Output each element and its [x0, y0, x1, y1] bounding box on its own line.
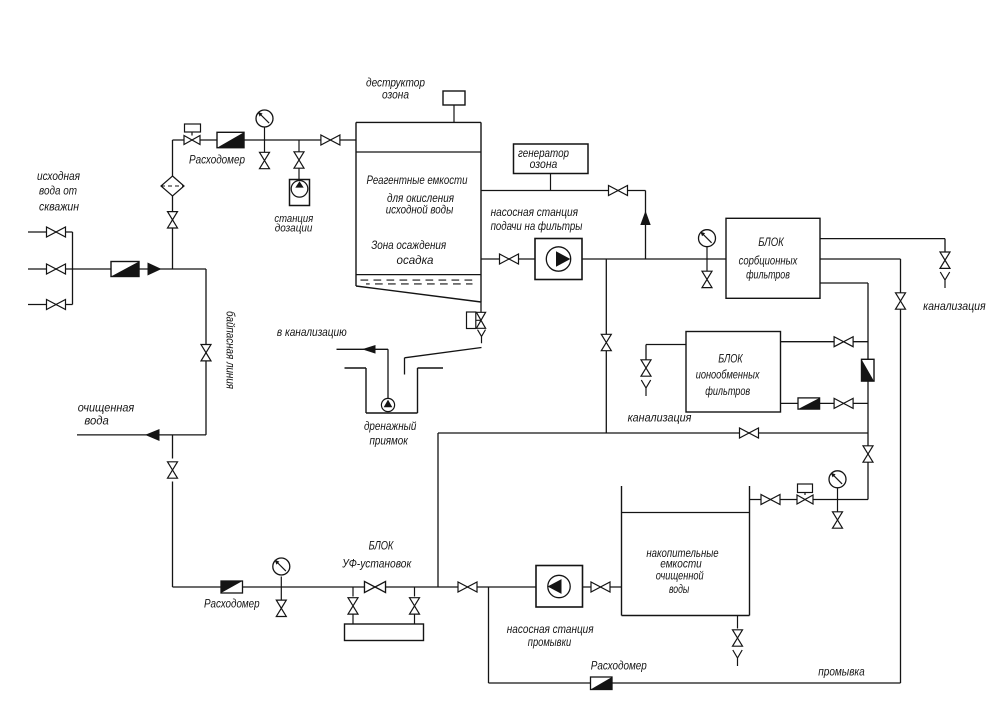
svg-text:Расходомер: Расходомер [591, 661, 648, 673]
valve UV left branch [348, 587, 358, 624]
reagent tank [356, 122, 481, 302]
svg-text:канализация: канализация [628, 413, 692, 425]
svg-text:Расходомер: Расходомер [189, 155, 246, 167]
wire ozone line [481, 191, 646, 260]
svg-text:очищенная: очищенная [78, 403, 134, 415]
valve washing riser [896, 293, 906, 309]
drainage pit walls [345, 368, 444, 413]
funnel sewer outlet [940, 272, 949, 288]
label: БЛОК УФ-установок [341, 541, 411, 571]
svg-text:Реагентные емкости: Реагентные емкости [367, 173, 468, 187]
wire well manifold [72, 232, 74, 305]
sorption filter block [726, 218, 820, 298]
valve before reagent tank [321, 135, 340, 145]
funnel ion drain [641, 380, 650, 396]
valve clean water branch [168, 462, 178, 478]
wire drop to bottom main [437, 433, 439, 587]
valve after UV [458, 582, 477, 592]
wire top dosing line [173, 139, 357, 141]
svg-text:емкости: емкости [660, 559, 702, 571]
wire storage tank drain [737, 616, 739, 629]
svg-text:БЛОК: БЛОК [758, 237, 785, 249]
svg-text:подачи на фильтры: подачи на фильтры [491, 221, 583, 233]
svg-text:фильтров: фильтров [746, 270, 790, 282]
svg-text:насосная станция: насосная станция [491, 207, 578, 219]
svg-text:БЛОК: БЛОК [369, 541, 395, 553]
label: насосная станция промывки [507, 624, 594, 649]
svg-text:очищенной: очищенной [656, 571, 704, 583]
svg-text:дозации: дозации [275, 223, 313, 235]
valve ion bottom [834, 398, 853, 408]
wire storage tank wash inlet [750, 499, 869, 501]
valve well 1 [47, 227, 66, 237]
label: очищенная вода [78, 403, 134, 428]
svg-text:исходной воды: исходной воды [386, 203, 454, 217]
valve storage tank drain [733, 630, 743, 646]
wire washing bottom line [489, 682, 901, 684]
svg-text:приямок: приямок [369, 436, 408, 448]
label: исходная вода от скважин [37, 171, 80, 214]
wire pit discharge [337, 349, 389, 398]
storage tank [622, 486, 750, 616]
label: деструктор озона [366, 78, 426, 102]
UV unit box [345, 624, 424, 641]
funnel storage tank drain [733, 650, 742, 666]
valve wash inlet [761, 495, 780, 505]
wire sorption to washing riser [820, 259, 901, 293]
svg-text:Расходомер: Расходомер [204, 599, 260, 611]
pressure gauge bottom line [273, 558, 290, 587]
svg-text:байпасная линия: байпасная линия [224, 311, 236, 389]
washing pump [536, 566, 583, 608]
valve UV right branch [410, 587, 420, 624]
drain valve under wash gauge [833, 500, 843, 529]
svg-text:УФ-установок: УФ-установок [341, 559, 411, 571]
drain valve under gauge [260, 140, 270, 169]
drainage pump [381, 398, 394, 411]
wire vertical from main feed junction [605, 259, 607, 433]
svg-text:скважин: скважин [39, 202, 80, 214]
strainer diamond [161, 176, 184, 196]
valve ion top [834, 337, 853, 347]
wire sorption to ion riser [820, 283, 868, 500]
wire wash cross line [438, 432, 868, 434]
wire sorption drain to sewer [820, 239, 945, 253]
drain valve under gauge main feed [702, 259, 712, 288]
svg-text:Зона осаждения: Зона осаждения [371, 238, 446, 252]
ozone destructor box [443, 91, 465, 122]
actuated valve wash inlet [797, 484, 813, 504]
wire main feed line [481, 258, 726, 260]
flow meter raw water [111, 262, 139, 277]
svg-text:дренажный: дренажный [364, 421, 417, 433]
ion exchange filter block [686, 332, 781, 413]
svg-text:фильтров: фильтров [705, 386, 750, 398]
svg-text:вода: вода [84, 416, 109, 428]
actuated valve top line [184, 124, 201, 145]
feed pump [535, 239, 582, 280]
svg-text:промывки: промывки [528, 637, 572, 649]
flow meter top line [217, 132, 244, 147]
flow arrow up ozone [640, 211, 650, 225]
valve sorption sewer [940, 252, 950, 268]
valve after washing pump [583, 582, 622, 592]
valve ion drain [641, 360, 651, 376]
label: накопительные емкости очищенной воды [646, 548, 718, 596]
wire ion top to riser [781, 341, 869, 343]
wire well stub 3 [28, 304, 73, 306]
svg-text:воды: воды [669, 584, 690, 596]
valve on vertical feed branch [601, 334, 611, 350]
svg-text:канализация: канализация [923, 301, 986, 313]
valve bypass [201, 345, 211, 361]
valve dosing branch [294, 140, 304, 180]
label: станция дозации [274, 213, 313, 235]
svg-text:озона: озона [530, 159, 558, 171]
flow meter ion bottom [798, 398, 820, 409]
valve riser [168, 212, 178, 228]
flow meter washing line [591, 677, 613, 690]
svg-text:исходная: исходная [37, 171, 80, 183]
wire clean water branch down [173, 435, 537, 587]
valve wash cross line [740, 428, 759, 438]
valve ozone line [609, 186, 628, 196]
label: БЛОК ионообменных фильтров [696, 354, 761, 399]
wire drop to washing bottom line [488, 587, 490, 683]
valve before feed pump [500, 254, 519, 264]
flow arrow left to sewer [362, 345, 376, 354]
wire drain chute [405, 348, 482, 375]
actuated drain valve reagent tank [467, 312, 486, 329]
funnel reagent drain [478, 330, 486, 344]
flow meter vertical riser [862, 359, 875, 381]
label: насосная станция подачи на фильтры [491, 207, 583, 233]
svg-text:ионообменных: ионообменных [696, 370, 761, 382]
wire well stub 2 [28, 268, 73, 270]
pressure gauge main feed [699, 230, 716, 259]
svg-text:деструктор: деструктор [366, 78, 426, 90]
wire riser from top line [172, 140, 174, 269]
pressure gauge top line [256, 110, 273, 140]
label: Зона осаждения осадка [371, 238, 446, 267]
svg-text:БЛОК: БЛОК [718, 354, 743, 366]
wire clean water outlet [77, 434, 206, 436]
dosing station pump [290, 180, 310, 206]
valve UV bypass (large) [364, 581, 385, 592]
svg-text:в канализацию: в канализацию [277, 327, 347, 339]
svg-text:насосная станция: насосная станция [507, 624, 594, 636]
wire ion bottom to riser [781, 402, 869, 404]
flow meter bottom left [221, 581, 243, 593]
label: БЛОК сорбционных фильтров [739, 237, 799, 282]
wire well stub 1 [28, 231, 73, 233]
wire washing riser down [900, 309, 902, 683]
wire reagent tank drain [480, 302, 482, 312]
label: Реагентные емкости для окисления исходной воды [367, 173, 468, 217]
svg-text:озона: озона [382, 90, 409, 102]
flow arrow right [148, 263, 162, 276]
svg-text:промывка: промывка [818, 667, 865, 679]
valve well 2 [47, 264, 66, 274]
wire raw water main [73, 269, 207, 435]
valve riser below wash line [863, 446, 873, 462]
label: генератор озона [518, 148, 570, 171]
wire ion block drain [646, 345, 686, 361]
label: дренажный приямок [364, 421, 417, 448]
svg-text:вода от: вода от [39, 186, 77, 198]
svg-text:осадка: осадка [397, 253, 434, 267]
svg-text:сорбционных: сорбционных [739, 255, 799, 267]
valve well 3 [47, 300, 66, 310]
flow arrow clean water [145, 429, 160, 441]
ozone generator box [514, 144, 589, 191]
drain valve under gauge bottom [276, 587, 286, 617]
pressure gauge wash line [829, 471, 846, 500]
